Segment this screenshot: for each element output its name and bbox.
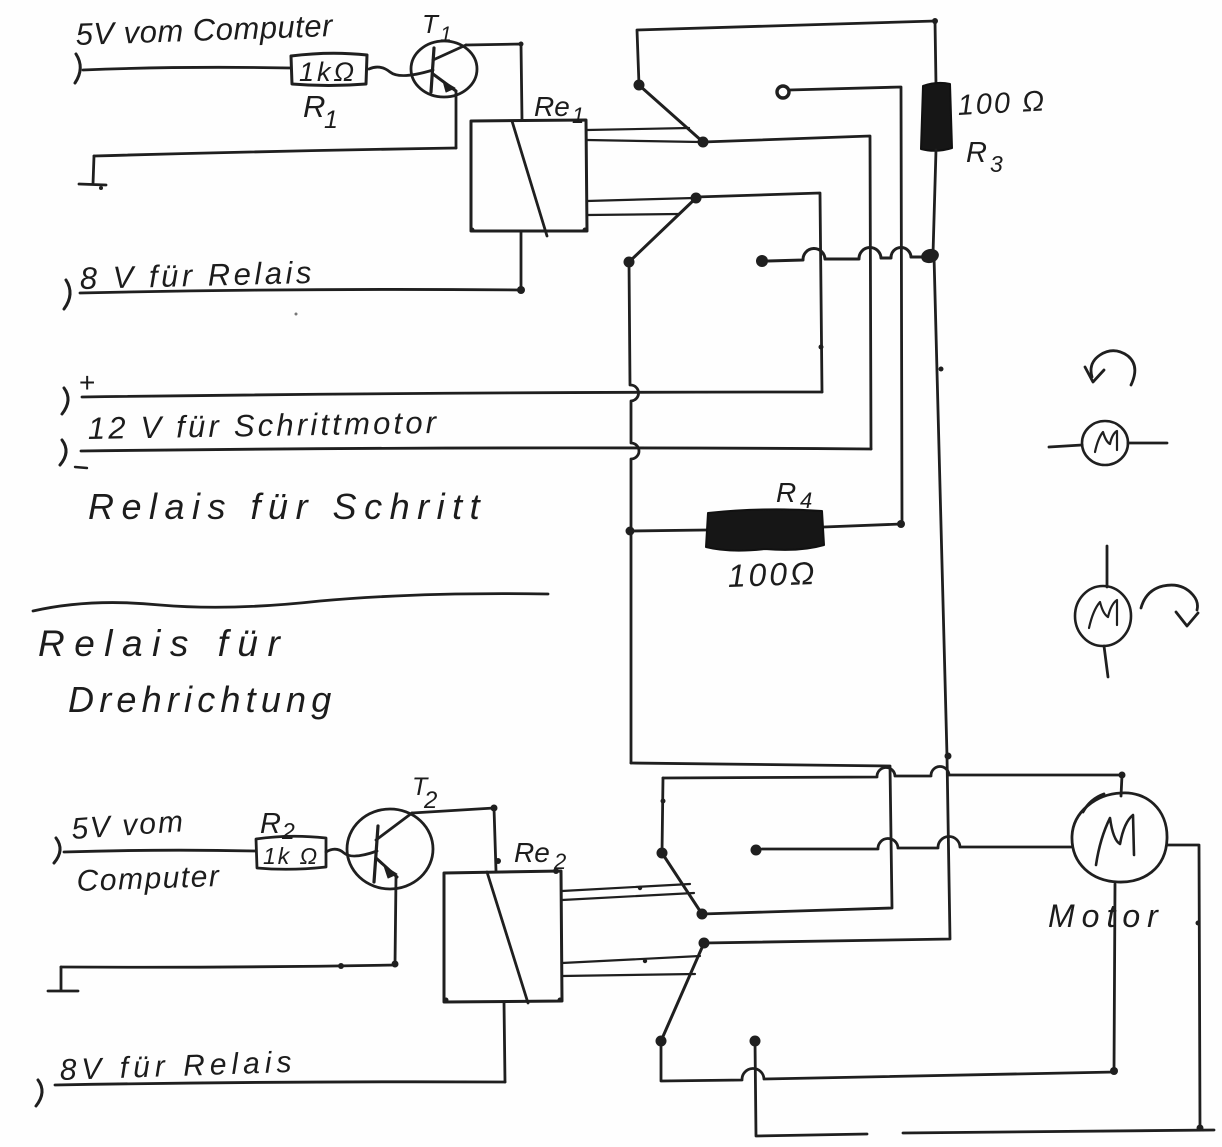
transistor T1: [411, 41, 477, 97]
node Re1/8V: [517, 286, 525, 294]
label Re2: [514, 837, 566, 874]
rotation arrow CW (right of lower small motor): [1141, 585, 1198, 610]
label Relais für: [38, 623, 289, 664]
label T1: [422, 9, 452, 46]
value label 1kΩ (R1): [299, 57, 357, 87]
Re2 pin 1: [562, 884, 690, 891]
wire NO lower down and right along bottom: [755, 1041, 1214, 1136]
Re1 pin 2: [587, 140, 700, 142]
label 5V vom Computer: [75, 8, 335, 52]
relay Re1 diagonal: [512, 121, 547, 236]
svg-text:8V für Relais: 8V für Relais: [59, 1046, 297, 1087]
long left vertical (S2 throw down) with hops over 12V wires: [629, 262, 639, 763]
node coil/R3 junction: [919, 247, 940, 265]
divider squiggle: [33, 594, 548, 611]
wire S1 throw up and across top to R3: [637, 21, 935, 85]
svg-text:3: 3: [990, 151, 1003, 177]
Re1 pin 1: [587, 128, 689, 130]
label + (12V): [79, 367, 95, 398]
svg-text:12 V für Schrittmotor: 12 V für Schrittmotor: [88, 405, 440, 446]
wire down into R3: [935, 21, 936, 85]
wire S1 common right, down to 12V-: [703, 136, 871, 449]
Re1 pin 4: [587, 214, 679, 215]
relay Re1 box: [471, 120, 587, 231]
label - (12V): [75, 467, 87, 468]
svg-text:Computer: Computer: [76, 860, 221, 898]
svg-text:100Ω: 100Ω: [727, 555, 818, 594]
svg-text:5V vom: 5V vom: [70, 805, 186, 846]
wire 8V rail: [80, 289, 521, 293]
label 5V vom: [70, 805, 186, 846]
node NO contact upper (motor left feed): [751, 845, 762, 856]
wire 5V to R2: [64, 850, 256, 852]
resistor R2 box: [256, 836, 326, 869]
wire to R4 left: [630, 530, 706, 531]
label Drehrichtung: [68, 679, 337, 720]
svg-text:2: 2: [281, 818, 295, 844]
svg-text:R: R: [260, 808, 281, 840]
node S4 throw: [656, 1036, 667, 1047]
svg-text:Drehrichtung: Drehrichtung: [68, 679, 337, 720]
label R1: [303, 89, 338, 134]
resistor R4 (filled): [706, 509, 824, 550]
Re2 pin 2: [562, 893, 694, 900]
svg-text:Relais für: Relais für: [38, 623, 289, 664]
node S3 common: [697, 909, 708, 920]
wire R2 to T2 base: [326, 849, 377, 856]
label Motor: [1048, 898, 1165, 934]
label Relais für Schritt: [88, 486, 487, 527]
svg-text:R: R: [776, 477, 796, 508]
wire T2 collector to Re2 top: [412, 808, 496, 871]
label 100Ω (R3): [957, 85, 1047, 122]
label R3: [966, 137, 1003, 177]
Re2 pin 4: [562, 974, 695, 976]
wire coil with crossover hops: [768, 247, 923, 261]
rotation arrow CCW (upper right): [1091, 351, 1135, 385]
input connector bracket (5V bottom): [54, 838, 60, 863]
svg-text:Re: Re: [534, 91, 570, 122]
motor M (main): [1072, 793, 1167, 882]
svg-text:4: 4: [800, 488, 812, 513]
wire open contact to x902 and down: [789, 87, 902, 524]
node S1 throw: [634, 80, 645, 91]
svg-text:Motor: Motor: [1048, 898, 1165, 934]
switch S4 lever: [661, 943, 704, 1041]
wire 5V input to R1: [83, 67, 291, 70]
svg-text:R: R: [966, 137, 987, 169]
switch S3 lever: [662, 853, 702, 914]
label R4: [776, 477, 812, 513]
label 8 V für Relais: [79, 255, 315, 296]
svg-text:5V vom Computer: 5V vom Computer: [75, 8, 335, 52]
wire NO upper to motor left with hops: [762, 836, 1071, 849]
svg-text:1: 1: [572, 103, 584, 128]
relay coil Re-coil terminal dot: [756, 255, 768, 267]
wire S4 common right and long vertical up to coil junction: [704, 256, 950, 943]
wire corner to R4: [824, 524, 901, 527]
input connector bracket (12V-): [60, 440, 66, 465]
motor symbol small (upper): [1049, 421, 1167, 465]
svg-text:1kΩ: 1kΩ: [299, 57, 357, 87]
wire emitter to ground (left): [94, 148, 456, 156]
speck: [295, 313, 298, 316]
node R4 right corner: [897, 520, 905, 528]
svg-text:2: 2: [423, 787, 437, 814]
wire S3 throw up to top rail of motor bridge: [662, 778, 663, 853]
wire Re2 bottom to 8V rail: [504, 1002, 505, 1082]
svg-text:+: +: [79, 367, 95, 398]
wire 12V- rail: [81, 448, 871, 451]
open contact (NC, top): [777, 86, 789, 98]
wire T1 collector to corner and down to Re1: [466, 44, 522, 120]
svg-text:100 Ω: 100 Ω: [957, 85, 1047, 122]
transistor T2: [347, 809, 433, 889]
node S4 common: [699, 938, 710, 949]
resistor R1 box: [291, 53, 367, 85]
wire R1 to T1 base: [369, 67, 433, 75]
motor symbol small (lower): [1075, 546, 1131, 677]
switch S2 lever (Re1 lower contact): [629, 198, 696, 262]
node S3 throw: [657, 848, 668, 859]
input connector bracket (8V bottom): [36, 1080, 42, 1106]
label Re1: [534, 91, 584, 128]
Re1 pin 3: [587, 198, 694, 201]
wire 12V+ rail: [82, 392, 822, 397]
node R4 left: [626, 527, 635, 536]
wire R3 bottom to junction: [933, 150, 936, 254]
label 12 V für Schrittmotor: [88, 405, 440, 446]
label 8V für Relais: [59, 1046, 297, 1087]
wire top rail with hops to motor top: [663, 767, 1122, 796]
wire S3 common to right vertical loop (to S2 path): [631, 763, 892, 914]
input connector bracket (8V top): [64, 280, 70, 309]
svg-text:1: 1: [324, 106, 338, 134]
wire 8V rail (bottom): [55, 1082, 505, 1085]
svg-text:2: 2: [553, 849, 566, 874]
resistor R3 (filled): [921, 83, 952, 151]
wire T2 emitter down: [395, 877, 396, 965]
label Computer: [76, 860, 221, 898]
wire emitter to ground (bottom left): [61, 965, 395, 967]
ground (top left): [79, 156, 106, 185]
value label 1kΩ (R2): [263, 843, 319, 869]
node S1 common: [698, 137, 709, 148]
wire Re1 bottom to 8V rail: [520, 231, 523, 290]
svg-text:Relais für Schritt: Relais für Schritt: [88, 486, 487, 527]
svg-text:1: 1: [440, 23, 452, 46]
svg-text:1k Ω: 1k Ω: [263, 843, 319, 869]
label 100Ω (R4): [727, 555, 818, 594]
node S2 throw: [624, 257, 635, 268]
label R2: [260, 808, 295, 844]
ground (bottom left): [48, 967, 78, 991]
node S2 common: [691, 193, 702, 204]
Re2 pin 3: [562, 956, 700, 963]
input connector bracket (12V+): [62, 388, 68, 414]
svg-text:T: T: [422, 9, 440, 39]
input connector bracket (5V top): [75, 54, 80, 83]
wire S2 common right, down to 12V+: [696, 193, 822, 392]
wire motor right lead and right vertical down: [1167, 845, 1200, 1128]
node NO contact lower: [750, 1036, 761, 1047]
relay Re2 box: [444, 871, 562, 1002]
relay Re2 diagonal: [487, 872, 528, 1003]
wire motor bottom lead down to S4 rail: [1114, 884, 1115, 1072]
wire T1 emitter down: [455, 92, 458, 148]
label T2: [412, 773, 437, 814]
wire S4 throw down and right to motor bottom with hop: [661, 1041, 1115, 1081]
svg-text:R: R: [303, 89, 325, 124]
svg-text:Re: Re: [514, 837, 550, 868]
switch S1 lever (Re1 upper contact): [640, 86, 703, 142]
